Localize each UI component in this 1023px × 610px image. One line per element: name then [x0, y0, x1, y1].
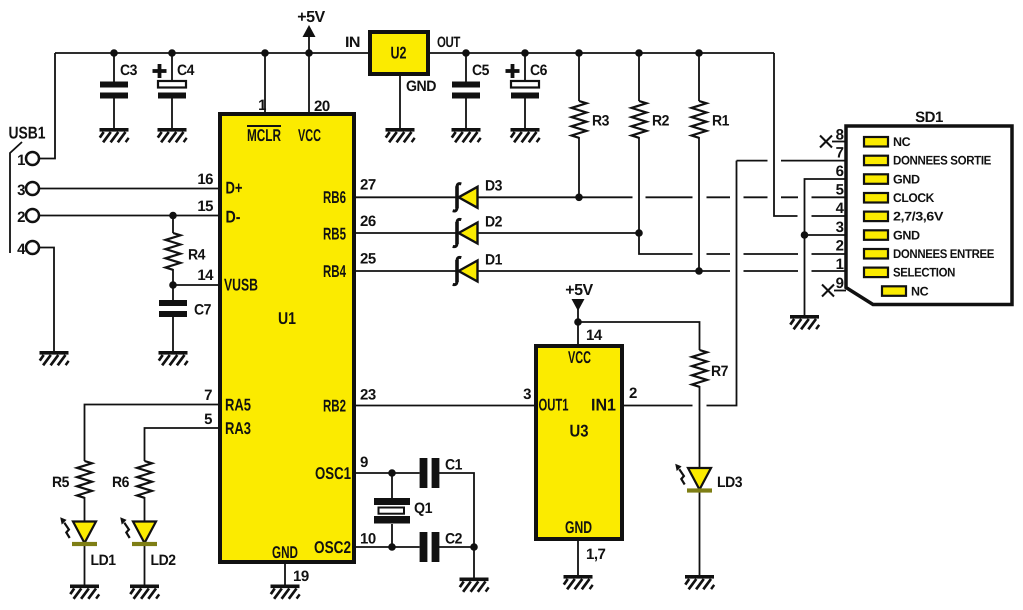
svg-text:RA5: RA5 [225, 396, 251, 415]
diode D1 [453, 252, 502, 285]
svg-text:9: 9 [360, 454, 368, 471]
wire U3 GND stem [577, 541, 579, 575]
capacitor C6 [506, 62, 548, 99]
capacitor C7 [159, 300, 211, 319]
diode D3 [453, 178, 502, 211]
ground U3 [564, 575, 593, 589]
svg-text:5: 5 [836, 182, 844, 199]
svg-text:7: 7 [204, 387, 212, 404]
SD1 pad GND pin6 [864, 172, 920, 186]
node MCLR rail [261, 49, 269, 57]
svg-text:DONNEES SORTIE: DONNEES SORTIE [893, 154, 991, 168]
connector SD1 [846, 109, 1012, 305]
resistor R2 [632, 101, 670, 138]
svg-text:RA3: RA3 [225, 419, 251, 438]
capacitor C2 [420, 531, 463, 563]
svg-text:LD3: LD3 [717, 474, 742, 491]
wire D1 to R1 and SD1 pin1 [478, 270, 846, 272]
regulator U2 [345, 32, 460, 95]
node OSC2 crystal [388, 543, 396, 551]
svg-text:CLOCK: CLOCK [893, 191, 934, 205]
svg-text:RB6: RB6 [323, 188, 346, 207]
svg-text:R1: R1 [712, 113, 729, 130]
wire U1 GND pin19 [284, 564, 286, 585]
SD1 pad SELECTION pin1 [864, 266, 955, 280]
ground C5 [452, 128, 481, 142]
wire RA5 to R5 [85, 405, 219, 462]
svg-text:GND: GND [893, 228, 920, 242]
wire USB pin2 to D- [39, 215, 218, 217]
svg-text:3: 3 [836, 219, 844, 236]
svg-text:VUSB: VUSB [224, 276, 258, 295]
capacitor C4 [153, 62, 196, 99]
wire U2 OUT rail [430, 52, 774, 54]
svg-text:2,7/3,6V: 2,7/3,6V [893, 210, 944, 224]
node VUSB [169, 281, 177, 289]
SD1 pad 2,7/3,6V pin4 [864, 210, 944, 224]
svg-text:9: 9 [836, 275, 844, 292]
wire +5V to U3 VCC [577, 307, 579, 344]
node R4 top [169, 212, 177, 220]
wire SD1 pin8 stub [832, 141, 846, 143]
IC U3 [523, 327, 637, 563]
crystal Q1 [374, 498, 432, 524]
wire R3 stems [578, 53, 580, 197]
wire pin7 row [737, 160, 847, 162]
svg-text:C6: C6 [530, 62, 547, 79]
svg-text:SD1: SD1 [915, 109, 943, 126]
wire SD1 pin9 stub [834, 290, 846, 292]
ground C3 [100, 128, 129, 142]
wire rail to USB pin1 [39, 53, 55, 159]
svg-text:15: 15 [197, 198, 213, 215]
LED LD1 [60, 517, 115, 569]
wire LD2 to ground [144, 545, 146, 585]
wire C5 stems [465, 53, 467, 128]
wire MCLR stub [264, 53, 266, 112]
wire RB2 to OUT1 [356, 405, 534, 407]
ground U2 [386, 128, 415, 142]
supply +5V top [297, 9, 325, 37]
svg-text:OUT1: OUT1 [539, 396, 569, 415]
svg-text:14: 14 [586, 327, 603, 344]
wire LD1 to ground [84, 545, 86, 585]
svg-text:U3: U3 [570, 422, 589, 441]
svg-text:3: 3 [17, 182, 25, 199]
svg-text:4: 4 [17, 241, 26, 258]
svg-text:R6: R6 [112, 474, 129, 491]
wire USB pin4 to ground [39, 248, 54, 352]
wire R1 stems [698, 53, 700, 271]
node C4 rail [168, 49, 176, 57]
resistor R4 [166, 233, 207, 270]
svg-text:7: 7 [836, 145, 844, 162]
svg-text:D+: D+ [226, 179, 243, 198]
wire LD3 to ground [699, 491, 701, 575]
ground LD1 [70, 585, 99, 599]
IC U1 [220, 114, 354, 562]
node C5 rail [462, 49, 470, 57]
svg-text:+5V: +5V [297, 9, 325, 26]
ground C6 [511, 128, 540, 142]
U1 pin numbers [197, 97, 376, 585]
node OSC1 crystal [388, 469, 396, 477]
wire C6 stems [524, 53, 526, 128]
resistor R6 [112, 461, 152, 498]
wire RB4 to D1 [356, 270, 456, 272]
wire RB5 to D2 [356, 232, 456, 234]
svg-text:8: 8 [836, 127, 844, 144]
svg-text:5: 5 [204, 411, 212, 428]
SD1 pad GND pin3 [864, 228, 920, 242]
wire D2 to R2 and SD1 pin2 [478, 233, 846, 254]
svg-text:RB5: RB5 [323, 225, 346, 244]
svg-text:26: 26 [360, 213, 376, 230]
wire C7 stems [172, 285, 174, 351]
svg-text:GND: GND [406, 78, 437, 95]
SD1 pin8 x mark [820, 136, 832, 148]
svg-text:Q1: Q1 [414, 500, 432, 517]
wire USB pin3 to D+ [39, 188, 218, 190]
svg-text:25: 25 [360, 251, 376, 268]
svg-text:16: 16 [197, 171, 213, 188]
wire crystal stems [391, 473, 393, 547]
ground C4 [158, 128, 187, 142]
wire OSC1 to C1 [356, 472, 420, 474]
svg-text:IN1: IN1 [591, 396, 616, 415]
svg-text:20: 20 [314, 98, 330, 115]
svg-text:OUT: OUT [437, 34, 460, 51]
SD1 pad CLOCK pin5 [864, 191, 934, 205]
SD1 pin numbers [836, 127, 845, 293]
svg-text:RB2: RB2 [323, 397, 346, 416]
wire C3 stems [113, 53, 115, 128]
connector USB1 [9, 124, 46, 259]
svg-text:R3: R3 [592, 113, 609, 130]
SD1 pad DONNEES SORTIE pin7 [864, 154, 991, 168]
svg-text:19: 19 [293, 568, 309, 585]
capacitor C5 [452, 62, 489, 99]
svg-text:SELECTION: SELECTION [893, 266, 955, 280]
SD1 pad NC pin9 [882, 284, 929, 298]
svg-text:C5: C5 [472, 62, 489, 79]
svg-text:C1: C1 [445, 457, 462, 474]
svg-text:6: 6 [836, 163, 844, 180]
supply +5V bottom [565, 282, 593, 311]
node R1 rail [695, 49, 703, 57]
wire R4 stems [172, 216, 174, 286]
wire C4 stems [171, 53, 173, 128]
node D2 R2 [635, 229, 643, 237]
wire IN1 to SD1 pin7 [624, 161, 737, 406]
wire D3 to R3 CLOCK line [478, 196, 846, 198]
svg-text:1: 1 [17, 152, 25, 169]
resistor R1 [692, 101, 730, 138]
capacitor C1 [420, 457, 463, 489]
resistor R3 [572, 101, 610, 138]
node D1 R1 [695, 267, 703, 275]
SD1 pad DONNEES ENTREE pin2 [864, 247, 994, 261]
node +5V VCC rail [305, 49, 313, 57]
svg-text:1: 1 [836, 256, 844, 273]
node D3 R3 [575, 194, 583, 202]
svg-text:10: 10 [360, 531, 376, 548]
svg-text:C4: C4 [177, 62, 195, 79]
svg-text:D2: D2 [485, 214, 502, 231]
SD1 pad NC pin8 [864, 135, 911, 149]
svg-text:NC: NC [911, 284, 929, 298]
wire OSC2 to C2 [356, 546, 420, 548]
svg-text:LD2: LD2 [151, 552, 176, 569]
svg-text:+5V: +5V [565, 282, 593, 299]
node R2 rail [635, 49, 643, 57]
diode D2 [453, 214, 502, 247]
wire SD1 pin3 stub [805, 234, 847, 236]
svg-text:C7: C7 [194, 302, 211, 319]
wire +5V branch to R7 [578, 322, 700, 350]
node +5V U3 [574, 318, 582, 326]
svg-text:OSC2: OSC2 [314, 538, 351, 557]
svg-text:NC: NC [893, 135, 911, 149]
wire VCC stub with +5V arrow stem [308, 36, 310, 112]
wire R5 to LD1 [84, 497, 86, 522]
wire RA3 to R6 [145, 428, 219, 461]
wire VUSB [173, 284, 218, 286]
wire RB6 to D3 [356, 196, 456, 198]
node C6 rail [521, 49, 529, 57]
svg-text:USB1: USB1 [9, 124, 46, 143]
svg-text:U1: U1 [278, 309, 296, 328]
svg-text:3: 3 [523, 386, 531, 403]
wire SD1 pin6 gnd vertical [805, 179, 847, 315]
svg-text:14: 14 [197, 267, 214, 284]
svg-text:VCC: VCC [298, 126, 321, 145]
svg-text:1,7: 1,7 [586, 546, 606, 563]
svg-text:LD1: LD1 [91, 552, 116, 569]
svg-text:2: 2 [17, 209, 25, 226]
resistor R7 [692, 350, 728, 387]
ground LD3 [685, 575, 714, 589]
ground SD1 [790, 315, 819, 329]
svg-text:C3: C3 [120, 62, 137, 79]
ground USB pin4 [40, 351, 69, 365]
svg-text:27: 27 [360, 177, 376, 194]
svg-text:4: 4 [836, 200, 845, 217]
wire +5V left rail [55, 52, 368, 54]
svg-text:U2: U2 [391, 44, 407, 63]
wire R2 stems [638, 53, 640, 233]
svg-text:R4: R4 [188, 247, 206, 264]
node R3 rail [575, 49, 583, 57]
svg-text:D1: D1 [485, 252, 502, 269]
svg-text:2: 2 [629, 385, 637, 402]
LED LD2 [120, 517, 175, 569]
svg-text:R2: R2 [652, 113, 669, 130]
svg-text:GND: GND [565, 518, 592, 537]
svg-text:OSC1: OSC1 [315, 464, 351, 483]
ground C1 C2 [460, 578, 489, 592]
svg-text:GND: GND [893, 172, 920, 186]
svg-text:RB4: RB4 [323, 262, 346, 281]
SD1 pin9 x mark [822, 285, 834, 297]
wire R6 to LD2 [144, 497, 146, 522]
svg-text:1: 1 [258, 97, 266, 114]
LED LD3 [675, 464, 742, 493]
svg-text:MCLR: MCLR [247, 126, 281, 145]
ground U1 pin19 [271, 585, 300, 599]
svg-text:R5: R5 [52, 474, 69, 491]
ground C7 [159, 351, 188, 365]
wire rail down to SD1 pin4 [774, 53, 846, 216]
svg-text:R7: R7 [711, 363, 728, 380]
ground LD2 [130, 585, 159, 599]
svg-text:GND: GND [272, 543, 298, 562]
svg-text:D3: D3 [485, 178, 502, 195]
svg-text:2: 2 [836, 238, 844, 255]
svg-text:IN: IN [345, 34, 360, 51]
wire U2 GND stem [399, 76, 401, 128]
node C2 right [470, 543, 478, 551]
wire C1 C2 right to ground [439, 473, 474, 578]
node SD1 gnd [801, 231, 809, 239]
resistor R5 [52, 461, 92, 498]
svg-text:23: 23 [360, 387, 376, 404]
svg-text:D-: D- [226, 208, 241, 227]
svg-text:VCC: VCC [568, 348, 591, 367]
node C3 rail [110, 49, 118, 57]
svg-text:C2: C2 [445, 531, 462, 548]
wire R7 to LD3 [699, 386, 701, 468]
capacitor C3 [100, 62, 137, 99]
svg-text:DONNEES ENTREE: DONNEES ENTREE [893, 247, 994, 261]
